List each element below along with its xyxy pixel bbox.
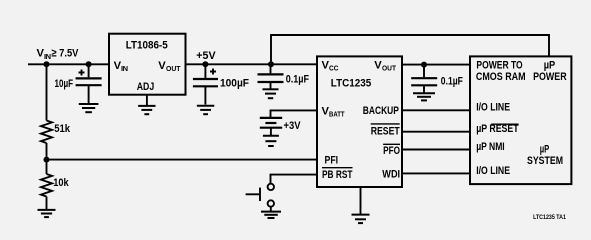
node +5V junction xyxy=(196,50,216,67)
battery +3V xyxy=(260,118,301,135)
resistor 10k xyxy=(41,160,69,210)
wire PFO to uP NMI xyxy=(402,149,470,151)
node VIN label xyxy=(37,48,79,61)
ground 0.1uF backup xyxy=(413,93,435,100)
svg-text:WDI: WDI xyxy=(382,169,400,181)
svg-text:POWER TO: POWER TO xyxy=(476,60,523,72)
svg-text:51k: 51k xyxy=(54,123,71,135)
svg-text:ADJ: ADJ xyxy=(137,81,155,93)
capacitor 10uF xyxy=(55,64,102,103)
svg-text:PFI: PFI xyxy=(325,154,339,166)
svg-text:0.1µF: 0.1µF xyxy=(286,74,309,86)
ground 0.1uF VCC xyxy=(263,89,279,98)
svg-text:µP: µP xyxy=(540,144,550,156)
svg-text:LT1086-5: LT1086-5 xyxy=(126,40,168,52)
svg-text:I/O LINE: I/O LINE xyxy=(476,102,510,114)
ground pushbutton xyxy=(261,212,281,218)
wire VOUT net xyxy=(402,64,470,66)
regulator U1 LT1086-5 xyxy=(109,34,186,95)
wire VBATT net xyxy=(271,110,318,117)
ground 100uF xyxy=(197,106,214,114)
ground 10uF xyxy=(79,104,99,112)
capacitor 0.1uF bypass VCC xyxy=(258,64,310,89)
node junction dot input-divider xyxy=(44,61,50,67)
svg-text:µP RESET: µP RESET xyxy=(476,123,519,135)
svg-text:10µF: 10µF xyxy=(55,78,74,90)
svg-text:+3V: +3V xyxy=(284,120,301,132)
svg-text:OUT: OUT xyxy=(382,64,396,73)
svg-text:LTC1235 TA1: LTC1235 TA1 xyxy=(533,214,566,221)
node VOUT junction xyxy=(421,62,427,68)
capacitor 100uF xyxy=(193,64,249,104)
node junction dot input-cap xyxy=(86,61,92,67)
svg-text:BATT: BATT xyxy=(329,110,345,119)
svg-text:CC: CC xyxy=(329,64,339,73)
svg-text:IN: IN xyxy=(44,52,51,61)
svg-text:BACKUP: BACKUP xyxy=(363,105,400,117)
wire top rail to uP power xyxy=(271,35,549,64)
svg-text:RESET: RESET xyxy=(371,125,400,137)
wire PFI net xyxy=(47,159,318,161)
svg-text:≥ 7.5V: ≥ 7.5V xyxy=(51,48,78,60)
svg-text:SYSTEM: SYSTEM xyxy=(527,155,563,167)
node VCC junction xyxy=(268,61,274,67)
resistor 51k xyxy=(41,64,71,159)
wire main input rail xyxy=(28,63,317,65)
svg-text:0.1µF: 0.1µF xyxy=(441,76,463,88)
block uP system xyxy=(470,56,571,184)
capacitor 0.1uF backup xyxy=(411,65,463,93)
svg-text:I/O LINE: I/O LINE xyxy=(476,165,510,177)
svg-text:POWER: POWER xyxy=(533,71,567,83)
wire PB RST net xyxy=(271,175,318,184)
svg-text:LTC1235: LTC1235 xyxy=(331,77,371,89)
IC LTC1235 xyxy=(317,56,402,187)
ground ADJ xyxy=(138,95,155,115)
ground battery xyxy=(263,136,279,146)
wire WDI to I/O LINE xyxy=(402,172,470,174)
svg-text:PB RST: PB RST xyxy=(322,169,353,181)
svg-text:OUT: OUT xyxy=(166,64,181,73)
ground divider xyxy=(38,210,56,217)
svg-text:10k: 10k xyxy=(53,177,69,189)
node PFI junction dot xyxy=(44,157,50,163)
svg-text:µP NMI: µP NMI xyxy=(476,141,505,153)
svg-text:CMOS RAM: CMOS RAM xyxy=(476,71,526,83)
svg-text:+5V: +5V xyxy=(196,50,216,62)
svg-text:IN: IN xyxy=(121,64,128,73)
pushbutton switch xyxy=(246,184,274,212)
svg-text:PFO: PFO xyxy=(383,145,400,157)
wire RESET to uP RESET xyxy=(402,131,470,133)
svg-text:µP: µP xyxy=(544,60,556,72)
svg-text:100µF: 100µF xyxy=(220,78,249,90)
ground LTC1235 xyxy=(352,187,370,223)
wire BACKUP to I/O LINE xyxy=(402,109,470,111)
